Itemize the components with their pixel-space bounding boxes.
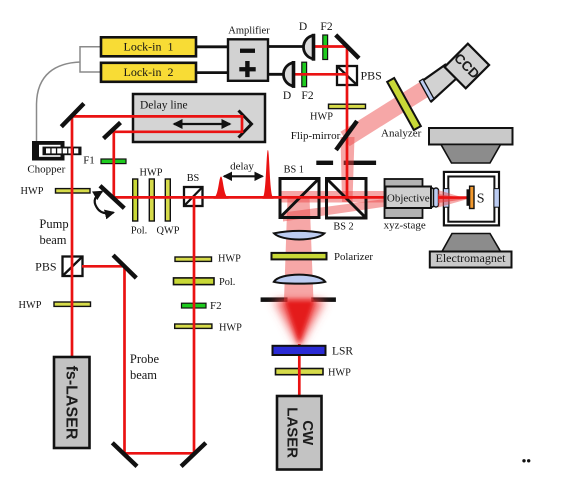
svg-text:BS 1: BS 1 [284, 165, 304, 176]
svg-text:fs-LASER: fs-LASER [62, 366, 79, 440]
beam: PBS to detector D2 [294, 73, 348, 76]
svg-text:BS: BS [187, 173, 200, 184]
half-wave plate HWP below PBS top [310, 104, 365, 122]
svg-text:HWP: HWP [219, 323, 242, 334]
beam splitter BS 2 [327, 179, 367, 233]
lens L1 below BS1 [274, 231, 324, 239]
beam: probe vertical from mirror M4 [123, 266, 126, 454]
svg-text:CW: CW [299, 420, 316, 446]
svg-text:F2: F2 [320, 21, 332, 33]
LSR [273, 346, 354, 358]
wire: Amplifier to detector D lower [267, 73, 284, 76]
svg-text:xyz-stage: xyz-stage [384, 220, 426, 232]
svg-text:Probe: Probe [130, 352, 160, 366]
svg-text:Analyzer: Analyzer [381, 128, 422, 140]
svg-text:HWP: HWP [328, 368, 351, 379]
beam: LSR to CW laser [298, 344, 301, 398]
electromagnet plate [430, 251, 512, 268]
half-wave plate HWP fs-laser [19, 300, 91, 311]
svg-text:Amplifier: Amplifier [228, 26, 270, 37]
beam: red cone mid above LSR [277, 300, 322, 347]
svg-text:delay: delay [230, 161, 254, 173]
analyzer [381, 78, 422, 139]
svg-text:LASER: LASER [284, 407, 301, 458]
svg-text:Delay line: Delay line [140, 100, 188, 112]
half-wave plate HWP stack top [175, 254, 241, 265]
mirror M5 bottom left [112, 443, 137, 467]
magnet pole bottom [442, 234, 501, 252]
delay line box [133, 94, 265, 142]
beam: delay line retro vertical [241, 115, 244, 133]
svg-text:Pol.: Pol. [219, 277, 235, 288]
Lock-in 1 [101, 37, 196, 56]
svg-text:HWP: HWP [310, 112, 333, 123]
Lock-in 2 [101, 63, 196, 82]
sample chamber [443, 172, 499, 226]
filter F2 top [320, 21, 332, 60]
wire: Amplifier to detector D top [267, 45, 304, 48]
delay line retroreflector [239, 111, 252, 138]
beam: into delay line [71, 115, 242, 118]
flip-mirror [291, 121, 357, 150]
svg-text:Electromagnet: Electromagnet [436, 251, 507, 265]
svg-text:F2: F2 [210, 300, 222, 312]
svg-text:F2: F2 [301, 90, 313, 102]
svg-text:QWP: QWP [157, 226, 180, 237]
beam: pink vertical band below BS1 [284, 197, 314, 301]
filter F2 lower [301, 62, 313, 102]
wire: Lock-in 2 to Amplifier [196, 71, 230, 74]
beam: red cone outer glow above LSR [272, 300, 327, 349]
CCD camera [419, 44, 489, 102]
quarter-wave plate QWP bar [165, 179, 170, 221]
filter F1 [83, 155, 126, 167]
svg-text:Polarizer: Polarizer [334, 251, 373, 263]
svg-text:Lock-in 2: Lock-in 2 [124, 65, 174, 79]
svg-text:beam: beam [130, 368, 157, 382]
pulse tall [263, 150, 274, 199]
svg-text:BS 2: BS 2 [333, 222, 353, 233]
beam: vertical through F1 [112, 131, 115, 199]
half-wave plate HWP pump [21, 186, 90, 197]
svg-text:beam: beam [39, 233, 66, 247]
chopper [27, 141, 81, 176]
beam: pink diagonal band flip-mirror to CCD [341, 81, 431, 146]
svg-text:Pump: Pump [39, 217, 68, 231]
svg-text:HWP: HWP [21, 186, 44, 197]
mirror M1 top left [61, 104, 84, 127]
detector D1 [299, 21, 314, 61]
beam: pink vertical band flip-mirror to BS2 [341, 137, 355, 202]
svg-text:LSR: LSR [332, 346, 353, 358]
mirror M6 bottom right [181, 443, 206, 467]
CW LASER [277, 396, 322, 470]
delay line translation arrow [174, 123, 230, 125]
wire: signal cable from lock-ins to chopper [37, 47, 102, 141]
beam splitter BS 1 [280, 165, 319, 218]
svg-text:Chopper: Chopper [27, 164, 65, 176]
beam: converging into sample [438, 190, 468, 208]
beam: probe vertical through waveplate stack [193, 197, 196, 454]
polarizing beam splitter PBS bottom [35, 257, 82, 277]
svg-text:D: D [299, 21, 307, 33]
xyz-stage block [384, 179, 426, 232]
svg-text:PBS: PBS [35, 260, 56, 274]
beam: PBS to mirror M4 [82, 265, 126, 268]
magnet pole top [441, 145, 501, 164]
beam: probe bottom horizontal [125, 452, 196, 455]
svg-text:S: S [477, 192, 485, 207]
pulse small [214, 177, 229, 199]
svg-text:Lock-in 1: Lock-in 1 [124, 40, 174, 54]
half-wave plate HWP stack bottom [175, 323, 242, 334]
svg-text:F1: F1 [83, 155, 95, 167]
polarizing beam splitter PBS top [337, 66, 382, 85]
beam: pump vertical fs-laser to mirror M1 [71, 116, 74, 360]
polarizer below BS1 [272, 251, 374, 263]
beam splitter BS [184, 173, 203, 206]
svg-text:HWP: HWP [218, 254, 241, 265]
mirror M2 [104, 123, 121, 139]
svg-text:HWP: HWP [19, 300, 42, 311]
lens L2 [274, 275, 326, 284]
polarizer Pol stack [174, 277, 236, 288]
filter F2 stack [182, 300, 222, 312]
svg-text:Flip-mirror: Flip-mirror [291, 130, 341, 142]
beam: main horizontal to sample [111, 196, 445, 199]
magnet top plate [429, 128, 513, 145]
rotating mirror M3 with arrow [95, 186, 125, 213]
mirror M7 top right [336, 35, 359, 58]
detector D2 [283, 61, 294, 102]
half-wave plate HWP bar [149, 179, 154, 221]
svg-text:PBS: PBS [361, 69, 382, 83]
beam: mirror M7 to detector D1 [314, 45, 349, 48]
svg-text:Objective: Objective [387, 192, 430, 204]
svg-text:Pol.: Pol. [131, 226, 147, 237]
aperture above LSR [261, 297, 336, 302]
polarizer Pol vertical bar [133, 179, 138, 221]
sample S [467, 186, 485, 208]
beam: out of delay line [112, 130, 242, 133]
beam: vertical PBS top to detectors line [346, 47, 349, 198]
beam: pink tilted return band [283, 192, 438, 222]
objective [386, 187, 439, 209]
Amplifier [228, 26, 270, 81]
wire: Lock-in 1 to Amplifier [196, 45, 230, 48]
beam: red cone bright above LSR [284, 300, 315, 344]
fs-LASER [54, 357, 90, 448]
dots bottom right [522, 459, 525, 462]
beam: pink horizontal band BS1 to objective [281, 191, 438, 203]
svg-text:D: D [283, 90, 291, 102]
mirror M4 [113, 255, 136, 278]
aperture above BS2 [316, 161, 376, 165]
svg-text:HWP: HWP [140, 168, 163, 179]
half-wave plate HWP cw [276, 368, 352, 379]
